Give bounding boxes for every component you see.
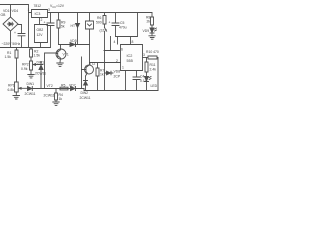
capacitor C4: [133, 77, 140, 91]
relay coil JZ: [86, 13, 94, 30]
pin1 wire: [125, 71, 127, 91]
wire x28 drop: [28, 13, 30, 48]
svg-text:VD7: VD7: [69, 84, 76, 88]
svg-text:DW2: DW2: [81, 91, 89, 95]
svg-text:RP2: RP2: [22, 63, 29, 67]
svg-text:VT2: VT2: [47, 84, 53, 88]
resistor R2: [30, 48, 33, 62]
wire top-left raw DC feed: [0, 5, 31, 13]
svg-text:DW1: DW1: [37, 61, 45, 65]
svg-text:+: +: [14, 31, 16, 35]
svg-text:1.5k: 1.5k: [34, 54, 41, 58]
svg-text:C4: C4: [140, 75, 144, 79]
svg-text:+: +: [44, 21, 46, 25]
svg-text:2.4k: 2.4k: [150, 68, 157, 72]
svg-text:+: +: [109, 21, 111, 25]
svg-text:2CP: 2CP: [114, 75, 121, 79]
top rail +12V: [48, 12, 153, 14]
svg-text:VD9: VD9: [143, 29, 150, 33]
diode HT: [77, 28, 79, 45]
relay contact JZ-1: [105, 28, 107, 63]
transistor VT2: [85, 65, 94, 74]
svg-text:R11: R11: [150, 63, 156, 67]
svg-text:VD5: VD5: [70, 39, 77, 43]
svg-text:IC2: IC2: [127, 54, 133, 58]
svg-text:2k: 2k: [147, 20, 151, 24]
wire bridge to C1: [18, 25, 22, 34]
bridge rectifier VD1~VD4: [3, 17, 18, 31]
resistor R6: [103, 13, 106, 28]
wire to rail: [104, 63, 106, 91]
svg-text:5k: 5k: [61, 25, 65, 29]
svg-text:GB2: GB2: [37, 28, 44, 32]
svg-text:DW1: DW1: [27, 82, 35, 86]
svg-text:VD8: VD8: [114, 70, 121, 74]
svg-text:2CW11: 2CW11: [25, 92, 36, 96]
svg-text:500: 500: [96, 21, 102, 25]
wire left ground rail: [0, 47, 50, 49]
IC3 regulator box: [32, 10, 48, 18]
pin 2 wire IC3: [39, 18, 41, 25]
wiper arrow RP2: [33, 64, 39, 66]
svg-text:12V: 12V: [37, 33, 44, 37]
svg-text:470u: 470u: [119, 26, 127, 30]
svg-text:2: 2: [41, 18, 43, 22]
resistor R11: [145, 58, 148, 77]
svg-text:6.8k: 6.8k: [8, 88, 15, 92]
resistor R7: [96, 63, 99, 91]
ground under VD9: [149, 36, 155, 39]
svg-text:1k: 1k: [100, 73, 104, 77]
ground under RP1: [13, 96, 20, 100]
svg-text:HT: HT: [71, 24, 76, 28]
resistor R5: [60, 87, 68, 90]
svg-text:R5: R5: [61, 84, 65, 88]
diode VD7: [75, 87, 77, 91]
LED VD9: [150, 28, 156, 36]
wire pin6 net: [104, 37, 120, 51]
battery box GB2: [35, 25, 48, 48]
svg-text:1k: 1k: [59, 97, 63, 101]
pin5 wire: [136, 71, 138, 77]
svg-text:0.1u: 0.1u: [140, 79, 147, 83]
diode VD8: [105, 71, 114, 75]
svg-text:C5: C5: [120, 21, 124, 25]
capacitor C5: [112, 13, 119, 37]
transistor VT1: [56, 49, 66, 59]
svg-text:R10 470: R10 470: [146, 50, 159, 54]
bottom rail: [84, 89, 158, 91]
svg-text:0.9k: 0.9k: [21, 67, 28, 71]
svg-text:VT2: VT2: [89, 62, 95, 66]
capacitor C2: [47, 13, 54, 48]
svg-text:8: 8: [132, 40, 134, 44]
LED VD10: [145, 77, 152, 91]
svg-text:RP1: RP1: [8, 84, 15, 88]
svg-text:IC3: IC3: [35, 12, 41, 16]
svg-text:1: 1: [28, 8, 30, 12]
zener DW1 vertical: [39, 62, 43, 89]
thermistor feed wire: [77, 13, 79, 24]
resistor R9: [57, 13, 60, 45]
ground under R4: [53, 102, 59, 105]
diode VD5: [75, 43, 77, 47]
IC2 555 box: [121, 45, 143, 71]
svg-text:6: 6: [121, 48, 123, 52]
svg-text:2: 2: [116, 59, 118, 63]
wiper arrow RP1: [19, 87, 28, 89]
svg-text:VT1: VT1: [63, 53, 69, 57]
node line VT1 base: [28, 53, 84, 89]
pin3 wire: [143, 57, 149, 59]
svg-text:3: 3: [143, 53, 145, 57]
base feed wire VT2: [81, 57, 83, 89]
svg-text:555: 555: [127, 59, 133, 63]
ground under RP2: [28, 75, 34, 78]
resistor R4: [55, 89, 58, 102]
wire bridge plus stub: [10, 5, 12, 18]
wire pin2 net: [90, 62, 121, 64]
ground under VT1: [57, 63, 63, 66]
zener DW3: [84, 76, 88, 91]
svg-text:R6: R6: [97, 16, 101, 20]
wire bridge minus: [10, 31, 12, 48]
svg-text:4: 4: [114, 40, 116, 44]
svg-text:LED: LED: [151, 84, 158, 88]
svg-text:2CW11: 2CW11: [44, 94, 55, 98]
svg-text:~220V 50Hz: ~220V 50Hz: [2, 42, 21, 46]
capacitor C1: [18, 34, 25, 48]
wire collector rail: [59, 44, 90, 46]
potentiometer RP2: [30, 61, 33, 74]
svg-text:3: 3: [48, 8, 50, 12]
resistor R8: [151, 13, 154, 28]
svg-text:1: 1: [122, 66, 124, 70]
svg-text:GB: GB: [1, 13, 7, 17]
resistor R10: [148, 56, 158, 91]
svg-text:7812: 7812: [34, 4, 42, 8]
wire relay to VT2: [89, 29, 91, 65]
resistor R1: [15, 48, 18, 83]
zener DW2 horizontal: [31, 87, 33, 91]
svg-text:2CW11: 2CW11: [35, 72, 46, 76]
wire Vcc 555: [116, 13, 138, 45]
svg-text:1.5k: 1.5k: [5, 55, 12, 59]
svg-text:2CW11: 2CW11: [80, 96, 91, 100]
potentiometer RP1: [15, 82, 19, 96]
svg-text:(JZ-1: (JZ-1: [100, 29, 108, 33]
